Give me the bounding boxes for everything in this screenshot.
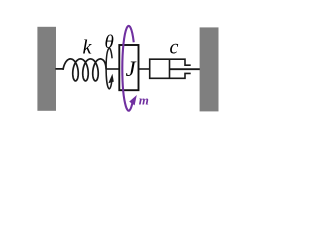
wire (block to damper cylinder) — [139, 68, 150, 70]
svg-text:m: m — [139, 93, 149, 108]
arrowhead of theta arc — [108, 74, 114, 83]
damper rod to right wall — [170, 68, 200, 70]
svg-text:c: c — [170, 37, 179, 59]
spring k (coil) — [56, 59, 106, 81]
damper piston plate — [169, 59, 171, 78]
theta rotation arc — [106, 48, 112, 89]
purple rotation ellipse arrow — [122, 26, 133, 111]
right wall — [200, 27, 219, 111]
left wall — [37, 27, 56, 111]
wire (shaft from spring to block) — [106, 68, 120, 70]
block J (inertia) — [119, 45, 138, 90]
damper c cylinder (open right) — [150, 59, 191, 78]
svg-text:k: k — [83, 37, 93, 59]
svg-text:θ: θ — [105, 32, 114, 53]
svg-text:J: J — [126, 56, 137, 81]
arrowhead of purple arrow — [129, 95, 137, 105]
